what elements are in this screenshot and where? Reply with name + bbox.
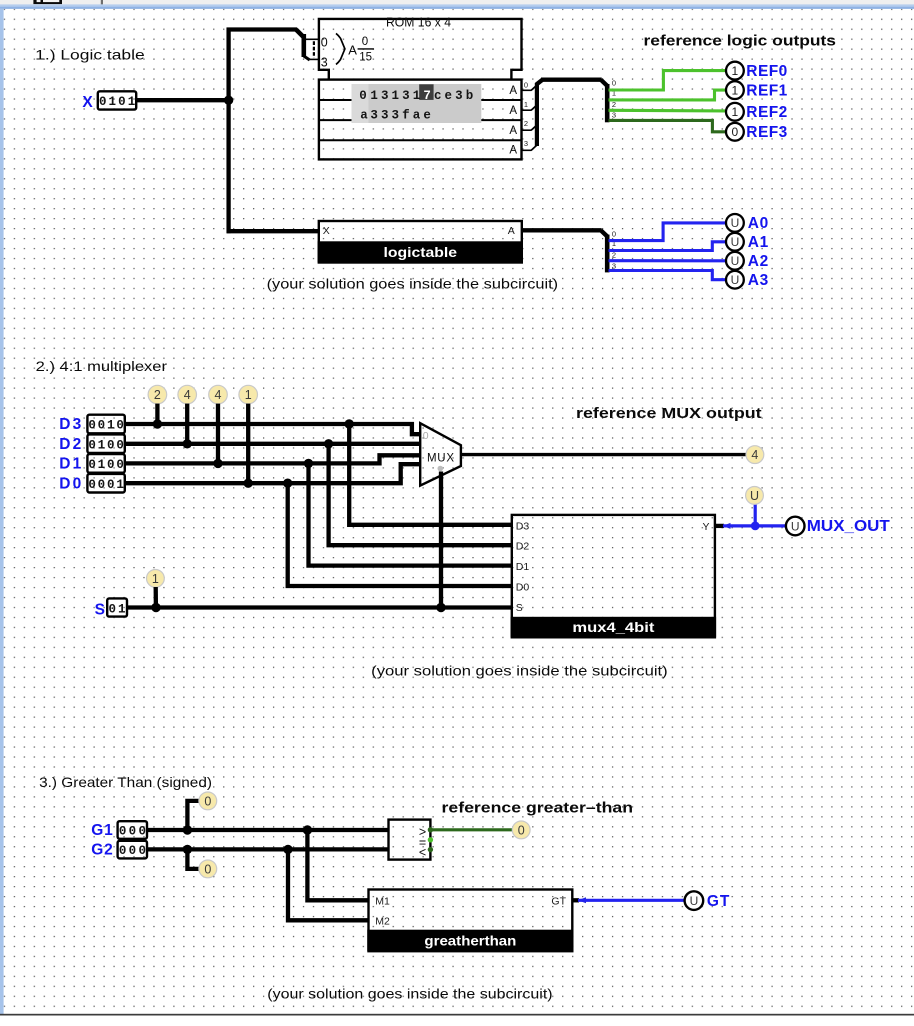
wire D0 row (125, 464, 420, 483)
wire D2 row (125, 442, 420, 446)
focus border left (0, 9, 4, 1014)
wire D0 tap down to mux4_4bit (288, 483, 512, 586)
probe value 4 on D2 (178, 385, 197, 404)
svg-text:D3: D3 (516, 520, 530, 532)
probe value 4 on D1 (209, 385, 228, 404)
svg-text:c: c (434, 89, 442, 103)
comparator U2 (389, 820, 431, 860)
svg-text:1: 1 (107, 419, 115, 433)
svg-text:U: U (750, 489, 759, 503)
svg-text:A3: A3 (748, 272, 769, 289)
svg-text:REF1: REF1 (746, 82, 787, 99)
svg-text:1: 1 (152, 572, 159, 586)
svg-text:U: U (731, 235, 740, 249)
svg-text:S: S (516, 602, 523, 614)
svg-text:D1: D1 (59, 456, 81, 473)
node S-select (436, 603, 445, 612)
pin dot eq (1) (428, 837, 433, 842)
ROM data selected cell (419, 84, 433, 100)
svg-text:e: e (423, 108, 431, 122)
svg-text:MUX: MUX (427, 453, 454, 465)
svg-text:a: a (360, 108, 368, 122)
wire D1 row (125, 455, 420, 463)
svg-text:U: U (731, 273, 740, 287)
svg-text:A2: A2 (748, 253, 769, 270)
pin dot lt (0) (428, 847, 433, 852)
svg-text:1: 1 (245, 388, 252, 402)
input S value box (107, 598, 127, 616)
output REF3 (726, 123, 744, 141)
node G2-tap (283, 845, 292, 854)
svg-text:1: 1 (732, 64, 739, 78)
svg-text:(your solution goes inside the: (your solution goes inside the subcircui… (371, 662, 668, 678)
node G1-tap (303, 825, 312, 834)
focus border top (0, 4, 914, 6)
svg-text:0: 0 (204, 794, 211, 808)
svg-text:0: 0 (423, 430, 429, 442)
svg-text:3.) Greater Than (signed): 3.) Greater Than (signed) (39, 774, 212, 790)
svg-text:3: 3 (321, 56, 328, 70)
svg-text:0: 0 (98, 478, 106, 492)
probe value 2 on D3 (148, 385, 167, 404)
node G2-probe (183, 845, 192, 854)
svg-text:<: < (419, 846, 426, 860)
svg-text:0: 0 (118, 95, 126, 109)
probe value 0 on G2 (187, 849, 199, 869)
wire Y output (715, 524, 724, 528)
multiplexer M1 (420, 423, 461, 485)
svg-text:reference greater–than: reference greater–than (442, 800, 634, 816)
svg-text:3: 3 (392, 108, 400, 122)
svg-text:0: 0 (518, 823, 525, 837)
svg-text:A: A (509, 145, 517, 157)
svg-text:reference logic outputs: reference logic outputs (644, 34, 837, 50)
splitter S4 (bus to A wires) (607, 229, 616, 272)
wire MUX select riser (439, 472, 443, 608)
svg-text:(your solution goes inside the: (your solution goes inside the subcircui… (267, 275, 558, 291)
wire A3 (U) (609, 271, 727, 280)
input X value box (98, 91, 136, 109)
wire X to junction (136, 98, 230, 102)
svg-text:0: 0 (138, 825, 146, 839)
input D3 value box (87, 415, 124, 434)
svg-text:0: 0 (119, 825, 127, 839)
input D1 value box (87, 454, 124, 473)
svg-text:1: 1 (524, 100, 528, 109)
svg-text:1: 1 (732, 83, 739, 97)
splitter S1 (X bus into ROM address pins) (296, 30, 319, 61)
ROM U1 lower body (319, 80, 522, 160)
subcircuit logictable (318, 221, 523, 263)
svg-text:0: 0 (116, 419, 124, 433)
node D3-probe (153, 419, 162, 428)
output A1 (726, 233, 744, 251)
svg-text:0: 0 (116, 438, 124, 452)
svg-text:0: 0 (359, 89, 367, 103)
svg-text:3: 3 (524, 139, 528, 148)
svg-text:logictable: logictable (384, 245, 458, 260)
wire logictable A output (522, 228, 602, 232)
svg-text:X: X (82, 94, 93, 111)
svg-text:0: 0 (129, 844, 137, 858)
svg-text:1: 1 (118, 602, 126, 616)
svg-text:0: 0 (107, 458, 115, 472)
svg-text:1: 1 (370, 89, 378, 103)
wire G1 row (147, 828, 389, 832)
svg-text:A0: A0 (748, 215, 769, 232)
svg-text:A: A (509, 105, 517, 117)
svg-text:0: 0 (119, 844, 127, 858)
svg-text:1: 1 (109, 95, 117, 109)
svg-text:15: 15 (359, 51, 372, 63)
subcircuit greatherthan (367, 890, 573, 952)
splitter S3 (bus to REF wires) (607, 79, 616, 123)
svg-text:0: 0 (88, 419, 96, 433)
wire REF0 (value 1) (609, 71, 727, 90)
wire top run to ROM splitter (227, 27, 298, 31)
svg-text:0: 0 (107, 438, 115, 452)
svg-text:X: X (323, 225, 330, 237)
svg-text:4: 4 (751, 448, 758, 462)
svg-text:0: 0 (138, 844, 146, 858)
svg-text:0: 0 (129, 825, 137, 839)
input D2 value box (87, 434, 124, 453)
svg-text:3: 3 (381, 89, 389, 103)
svg-text:0: 0 (116, 458, 124, 472)
wire G2 row (147, 847, 389, 851)
svg-text:3: 3 (612, 261, 616, 270)
svg-text:REF2: REF2 (746, 104, 787, 121)
node D1-probe (213, 459, 222, 468)
wire GT output (572, 898, 579, 902)
wire G2 tap to M2 (288, 849, 369, 920)
node D3-tap (345, 419, 354, 428)
svg-text:0: 0 (88, 438, 96, 452)
svg-text:0: 0 (612, 229, 616, 238)
wire S row (127, 605, 512, 609)
svg-text:D2: D2 (516, 541, 530, 553)
input D0 value box (87, 474, 124, 493)
svg-text:0: 0 (732, 125, 739, 139)
svg-text:3: 3 (381, 108, 389, 122)
ROM U1 upper body (319, 19, 522, 80)
output REF2 (726, 103, 744, 121)
svg-text:3: 3 (455, 89, 463, 103)
svg-text:M1: M1 (375, 895, 390, 907)
wire A0 (U) (609, 223, 727, 241)
svg-text:0: 0 (362, 36, 368, 48)
wire REF2 (value 1) (609, 109, 727, 113)
node G1-probe (183, 825, 192, 834)
svg-text:REF3: REF3 (746, 124, 787, 141)
svg-text:0: 0 (204, 862, 211, 876)
splitter S2 (ROM outputs merge) (522, 80, 538, 150)
wire vertical trunk (226, 28, 230, 234)
svg-text:b: b (466, 89, 474, 103)
canvas bottom edge (0, 1014, 914, 1016)
svg-text:U: U (690, 894, 699, 908)
wire D1 tap down to mux4_4bit (309, 463, 512, 565)
wire D3 row (125, 424, 420, 434)
wire A1 (U) (609, 242, 727, 251)
output A0 (726, 214, 744, 232)
node junction on X bus (224, 96, 233, 105)
wire G1 tap to M1 (307, 830, 368, 900)
svg-text:U: U (731, 216, 740, 230)
svg-text:4: 4 (184, 388, 191, 402)
svg-text:0: 0 (98, 419, 106, 433)
svg-text:A1: A1 (748, 234, 769, 251)
output MUX_OUT (786, 517, 805, 536)
svg-text:D0: D0 (59, 475, 81, 492)
svg-text:(your solution goes inside the: (your solution goes inside the subcircui… (267, 985, 552, 1001)
svg-text:1: 1 (732, 105, 739, 119)
node D2-tap (324, 439, 333, 448)
svg-text:1: 1 (128, 95, 136, 109)
svg-text:1: 1 (116, 478, 124, 492)
wire REF3 (value 0) (609, 120, 727, 131)
wire bottom run to logictable (227, 229, 319, 233)
probe value 0 on G1 (187, 801, 199, 830)
svg-text:2: 2 (154, 388, 161, 402)
svg-text:3: 3 (402, 89, 410, 103)
svg-text:0: 0 (88, 478, 96, 492)
svg-text:f: f (402, 108, 410, 122)
output REF0 (726, 62, 744, 80)
node D0-probe (244, 479, 253, 488)
ROM data display (352, 84, 482, 123)
svg-text:2.) 4:1 multiplexer: 2.) 4:1 multiplexer (36, 358, 168, 374)
svg-text:ROM 16 x 4: ROM 16 x 4 (386, 16, 451, 30)
svg-text:G1: G1 (91, 822, 113, 839)
svg-text:S: S (95, 601, 105, 618)
svg-text:U: U (731, 254, 740, 268)
svg-text:3: 3 (612, 111, 616, 120)
svg-text:D0: D0 (516, 582, 530, 594)
subcircuit mux4_4bit (511, 515, 716, 637)
ROM address brace chevrons (336, 33, 345, 64)
svg-text:GT: GT (551, 895, 566, 907)
svg-text:G2: G2 (91, 842, 113, 859)
wire A2 (U) (609, 259, 727, 262)
svg-text:4: 4 (215, 388, 222, 402)
svg-text:3: 3 (370, 108, 378, 122)
output A3 (726, 271, 744, 289)
wire comparator gt to probe (0) (432, 828, 512, 831)
probe value 1 on D0 (239, 385, 258, 404)
output GT (685, 891, 704, 910)
svg-text:MUX_OUT: MUX_OUT (807, 518, 891, 535)
svg-text:e: e (445, 89, 453, 103)
wire D2 tap down to mux4_4bit (329, 444, 512, 545)
svg-text:1: 1 (98, 458, 106, 472)
svg-text:1: 1 (98, 438, 106, 452)
svg-text:0: 0 (107, 478, 115, 492)
svg-text:0: 0 (88, 458, 96, 472)
node MUX_OUT junction (751, 522, 760, 531)
svg-text:0: 0 (99, 95, 107, 109)
svg-text:0: 0 (524, 80, 528, 89)
wire D3 tap down to mux4_4bit (349, 424, 512, 525)
svg-text:D2: D2 (59, 436, 81, 453)
svg-text:1: 1 (413, 89, 421, 103)
toolbar remnant strip (0, 0, 914, 5)
wire MUX output to probe (461, 453, 746, 456)
input G1 value box (118, 821, 147, 839)
svg-text:mux4_4bit: mux4_4bit (572, 620, 655, 635)
probe value 4 MUX output (746, 446, 764, 464)
node D0-tap (283, 479, 292, 488)
node S-probe (151, 603, 160, 612)
pin dot gt (0) (428, 827, 433, 832)
probe value 1 on S (147, 570, 165, 588)
svg-text:M2: M2 (375, 915, 390, 927)
svg-text:2: 2 (524, 119, 528, 128)
input G2 value box (118, 841, 147, 859)
svg-text:0: 0 (612, 79, 616, 88)
svg-text:0: 0 (109, 602, 117, 616)
probe value U above MUX_OUT (746, 487, 764, 505)
svg-text:D3: D3 (59, 416, 81, 433)
svg-text:U: U (791, 519, 800, 533)
node D2-probe (183, 439, 192, 448)
svg-text:1.) Logic table: 1.) Logic table (35, 47, 145, 63)
output REF1 (726, 81, 744, 99)
svg-text:a: a (413, 108, 421, 122)
svg-text:D1: D1 (516, 561, 530, 573)
svg-text:REF0: REF0 (746, 63, 787, 80)
svg-text:greatherthan: greatherthan (424, 934, 516, 949)
svg-text:0: 0 (321, 36, 328, 50)
svg-text:A: A (509, 85, 517, 97)
svg-text:Y: Y (702, 521, 709, 533)
probe value 0 reference greater-than (512, 821, 530, 839)
svg-text:GT: GT (707, 893, 730, 910)
svg-text:1: 1 (392, 89, 400, 103)
node D1-tap (304, 459, 313, 468)
svg-text:A: A (348, 42, 357, 57)
output A2 (726, 252, 744, 270)
svg-text:reference MUX output: reference MUX output (576, 406, 762, 422)
svg-text:A: A (508, 225, 515, 237)
svg-text:7: 7 (423, 89, 431, 103)
svg-text:A: A (509, 125, 517, 137)
wire REF1 (value 1) (609, 90, 727, 100)
wire ROM bus to splitter S3 (536, 80, 543, 85)
